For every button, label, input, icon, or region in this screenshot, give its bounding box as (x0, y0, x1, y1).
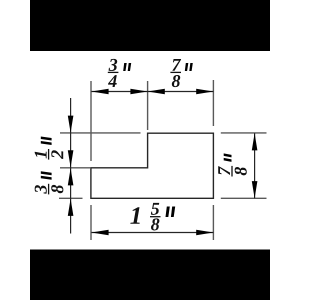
arrowhead: top dim left (points left) (91, 89, 108, 95)
dimension line: right vertical (254, 133, 256, 198)
dimension text 1/2" (left, rotated) (35, 137, 63, 160)
dimension text 3/4" (top left) (108, 59, 131, 87)
arrowhead: bottom dim left (points left) (91, 230, 108, 236)
dimension text 3/8" (left, rotated) (35, 171, 64, 194)
arrowhead: 1/2 dim bottom (points up, outside below) (68, 168, 74, 185)
extension line: bottom-right vertical below part (212, 205, 214, 240)
arrowhead: 1/2 dim top (points down, outside) (68, 116, 74, 133)
arrowhead: 3/8 dim top (points down, outside above) (68, 150, 74, 167)
extension line: top surface extended left (60, 132, 141, 134)
extension line: step vertical above part (147, 81, 149, 130)
extension line: bottom surface extended left (59, 197, 83, 199)
dimension text 1 5/8" (bottom) (130, 203, 175, 231)
extension line: top surface extended right (221, 132, 267, 134)
dimension line: bottom horizontal (91, 232, 213, 234)
extension line: mid surface extended left (60, 167, 91, 169)
extension line: bottom-left vertical below part (90, 205, 92, 240)
dimension text 7/8" (top right) (170, 59, 192, 87)
dimension line: top horizontal (91, 91, 213, 93)
bottom black bar (30, 250, 270, 300)
arrowhead: bottom dim right (points right) (196, 230, 213, 236)
dimension text 7/8" (right, rotated) (218, 153, 247, 176)
arrowhead: top dim at step from left (points right) (130, 89, 147, 95)
arrowhead: right dim bottom (points down) (252, 181, 258, 198)
extension line: left edge vertical above part (90, 81, 92, 161)
dimension line: left vertical (70, 98, 72, 234)
top black bar (30, 0, 270, 51)
arrowhead: 3/8 dim bottom (points up, outside below) (68, 199, 74, 216)
extension line: bottom surface extended right (221, 197, 267, 199)
extension line: right edge vertical above part (212, 80, 214, 126)
arrowhead: top dim at step from right (points left) (148, 89, 165, 95)
arrowhead: top dim right (points right) (196, 89, 213, 95)
part outline (stepped block) (91, 133, 213, 198)
arrowhead: right dim top (points up) (252, 133, 258, 150)
